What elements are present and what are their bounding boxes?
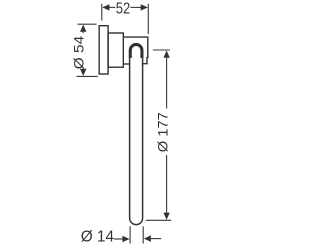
arrow O54 top: [80, 25, 86, 32]
dim O54: extension lines: [78, 23, 97, 25]
technical dimension drawing: towel holder side view: [0, 0, 247, 247]
arrow O177 bottom: [163, 213, 169, 220]
arrow O14 left-pointing: [144, 235, 151, 241]
svg-text:Ø 177: Ø 177: [155, 112, 170, 152]
holder left step: [123, 63, 129, 65]
dim 52: extension lines: [101, 4, 103, 21]
arrow 52 right: [141, 4, 148, 10]
dim O14: extension lines: [129, 226, 131, 243]
svg-text:Ø 14: Ø 14: [81, 229, 115, 246]
towel bar (capsule: rounded top + long bar + rounded bottom): [130, 44, 143, 225]
dim O14: dimension line segments: [114, 238, 123, 240]
arrow O177 top: [163, 51, 169, 58]
arrow O54 bottom: [80, 69, 86, 76]
dim O54: dimension line segments: [82, 31, 84, 33]
svg-text:Ø 54: Ø 54: [72, 35, 87, 69]
dim 52: dimension line segments: [109, 6, 115, 8]
wall rosette (side view rectangle): [99, 26, 108, 74]
arrow O14 right-pointing: [122, 236, 129, 242]
arrow 52 left: [102, 4, 109, 10]
stem: [108, 33, 123, 67]
holder block: [123, 37, 148, 64]
dim O177: extension lines: [153, 49, 170, 51]
svg-text:52: 52: [116, 0, 131, 17]
dim O177: dimension line segments: [166, 57, 168, 108]
collar band (thick arc over bar): [130, 45, 142, 58]
